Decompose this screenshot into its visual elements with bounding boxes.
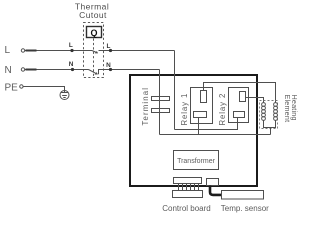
wire L stub bbox=[26, 50, 37, 52]
svg-text:Temp. sensor: Temp. sensor bbox=[221, 204, 269, 213]
svg-text:Terminal: Terminal bbox=[141, 87, 150, 126]
svg-text:Relay 2: Relay 2 bbox=[218, 93, 227, 126]
relay 1 coil bbox=[201, 91, 207, 103]
wire N bus bbox=[160, 134, 271, 136]
svg-text:Relay 1: Relay 1 bbox=[180, 93, 189, 126]
temp sensor body bbox=[222, 191, 264, 200]
switch blade L bbox=[92, 51, 98, 54]
wire through terminal bars bbox=[159, 96, 161, 113]
svg-text:L: L bbox=[5, 45, 11, 56]
control board connector top bar bbox=[174, 178, 202, 184]
relay 1 box bbox=[191, 88, 213, 124]
relay 2 box bbox=[229, 88, 249, 123]
svg-text:N: N bbox=[69, 61, 74, 68]
node dot L right bbox=[109, 49, 112, 52]
label Thermal Cutout bbox=[75, 2, 109, 21]
thermal cutout actuator dashed link bbox=[93, 39, 95, 78]
terminal block bar 2 bbox=[152, 109, 170, 113]
heating element coil left bbox=[262, 103, 266, 121]
wire relay2 coil to heating left coil bbox=[246, 98, 264, 104]
svg-text:Q: Q bbox=[90, 28, 97, 38]
svg-text:Transformer: Transformer bbox=[177, 158, 216, 165]
terminal circle L bbox=[21, 49, 24, 52]
svg-text:N: N bbox=[106, 62, 111, 69]
node dot N left bbox=[71, 68, 74, 71]
wire L right bbox=[99, 50, 175, 52]
relay 2 coil bbox=[240, 92, 246, 102]
svg-text:Element: Element bbox=[283, 95, 292, 123]
heating element coil right bbox=[274, 103, 278, 121]
wire N vertical drop bbox=[159, 70, 161, 135]
terminal circle PE bbox=[20, 85, 23, 88]
wire N step bbox=[99, 70, 160, 75]
label Heating Element bbox=[283, 95, 299, 123]
relay 1 contact pad bbox=[194, 112, 207, 118]
svg-text:L: L bbox=[69, 42, 73, 49]
thermal cutout dashed enclosure bbox=[84, 23, 104, 78]
svg-text:N: N bbox=[5, 65, 12, 76]
svg-text:Control board: Control board bbox=[162, 204, 210, 213]
wire heating bottom drop to N bus bbox=[270, 128, 272, 135]
wire N stub bbox=[26, 69, 37, 71]
thermal sensor box Q bbox=[87, 27, 102, 39]
switch blade N bbox=[89, 70, 98, 75]
svg-text:L: L bbox=[106, 43, 110, 50]
transformer box bbox=[174, 151, 219, 170]
node dot L left bbox=[70, 49, 73, 52]
wire heating coils bottom join bbox=[264, 120, 276, 127]
wire relay1 pad to N bus bbox=[198, 118, 200, 135]
wire relay1 coil to heating right coil bbox=[204, 83, 276, 104]
wire L left bbox=[25, 50, 92, 52]
terminal circle N bbox=[21, 68, 24, 71]
wire L vertical drop bbox=[174, 51, 176, 130]
heating element dashed enclosure bbox=[260, 101, 278, 129]
terminal block bar 1 bbox=[152, 97, 170, 101]
temp sensor connector box bbox=[207, 179, 219, 186]
wire L feed to relay2 pad bbox=[175, 118, 238, 130]
wire N left bbox=[25, 69, 89, 71]
svg-text:Cutout: Cutout bbox=[79, 10, 107, 20]
relay 2 contact pad bbox=[234, 112, 245, 118]
control board connector bottom bar bbox=[173, 191, 203, 198]
node dot N right bbox=[109, 68, 112, 71]
ground PE earth symbol bbox=[60, 91, 69, 100]
wire PE bbox=[24, 87, 65, 91]
control board connector teeth bbox=[179, 184, 199, 191]
temp sensor cable bbox=[210, 186, 222, 195]
main unit box bbox=[130, 75, 257, 186]
svg-text:PE: PE bbox=[5, 83, 19, 94]
